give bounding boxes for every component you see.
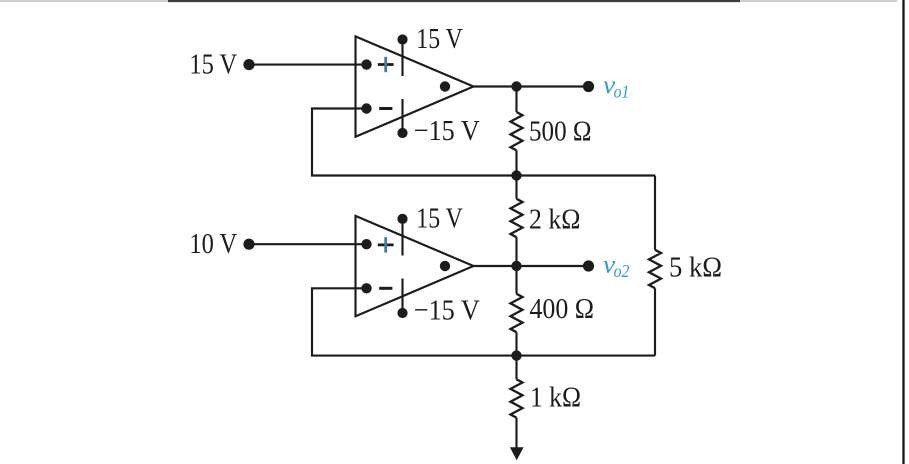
U2 negative supply -15 V — [397, 279, 479, 327]
svg-text:10 V: 10 V — [189, 228, 237, 260]
U1 negative supply -15 V — [397, 99, 479, 147]
ground — [510, 447, 524, 460]
svg-text:400 Ω: 400 Ω — [530, 293, 595, 325]
svg-text:15 V: 15 V — [416, 203, 463, 235]
node D — [511, 350, 521, 360]
resistor R2 2 kohm — [511, 176, 581, 267]
source V1 15 V — [189, 49, 254, 81]
node A (U1 output node) — [511, 81, 521, 91]
svg-text:o2: o2 — [614, 261, 630, 281]
wire V1 to U1 noninverting input — [249, 64, 367, 66]
source V2 10 V — [189, 228, 254, 260]
resistor R1 500 ohm — [511, 87, 592, 176]
wire U1 feedback (inverting input to node B) — [312, 109, 517, 176]
svg-text:15 V: 15 V — [189, 49, 237, 81]
wire U2 output to node C and terminal — [472, 265, 589, 267]
wire node B to R5 top — [517, 174, 656, 176]
op-amp U1 — [356, 36, 474, 136]
svg-text:1 kΩ: 1 kΩ — [530, 382, 581, 414]
terminal vo2 — [583, 250, 630, 282]
node B — [511, 170, 521, 180]
resistor R5 5 kohm — [649, 176, 722, 356]
svg-text:5 kΩ: 5 kΩ — [669, 251, 722, 283]
resistor R4 1 kohm — [511, 356, 582, 449]
svg-text:−15 V: −15 V — [414, 295, 480, 327]
wire V2 to U2 noninverting input — [249, 243, 367, 245]
U2 positive supply 15 V — [397, 203, 462, 256]
wire node D to R5 bottom — [517, 355, 656, 357]
svg-text:−15 V: −15 V — [414, 115, 480, 147]
svg-text:2 kΩ: 2 kΩ — [529, 204, 581, 236]
svg-text:500 Ω: 500 Ω — [529, 116, 592, 148]
svg-text:15 V: 15 V — [416, 23, 463, 55]
U1 positive supply 15 V — [397, 23, 462, 76]
wire U2 feedback (inverting input to node D) — [312, 288, 517, 355]
node C (U2 output node) — [511, 261, 521, 271]
resistor R3 400 ohm — [511, 266, 595, 356]
wire U1 output to node A and terminal — [472, 85, 589, 87]
op-amp U2 — [356, 216, 474, 316]
terminal vo1 — [583, 70, 629, 102]
svg-text:o1: o1 — [614, 82, 630, 102]
